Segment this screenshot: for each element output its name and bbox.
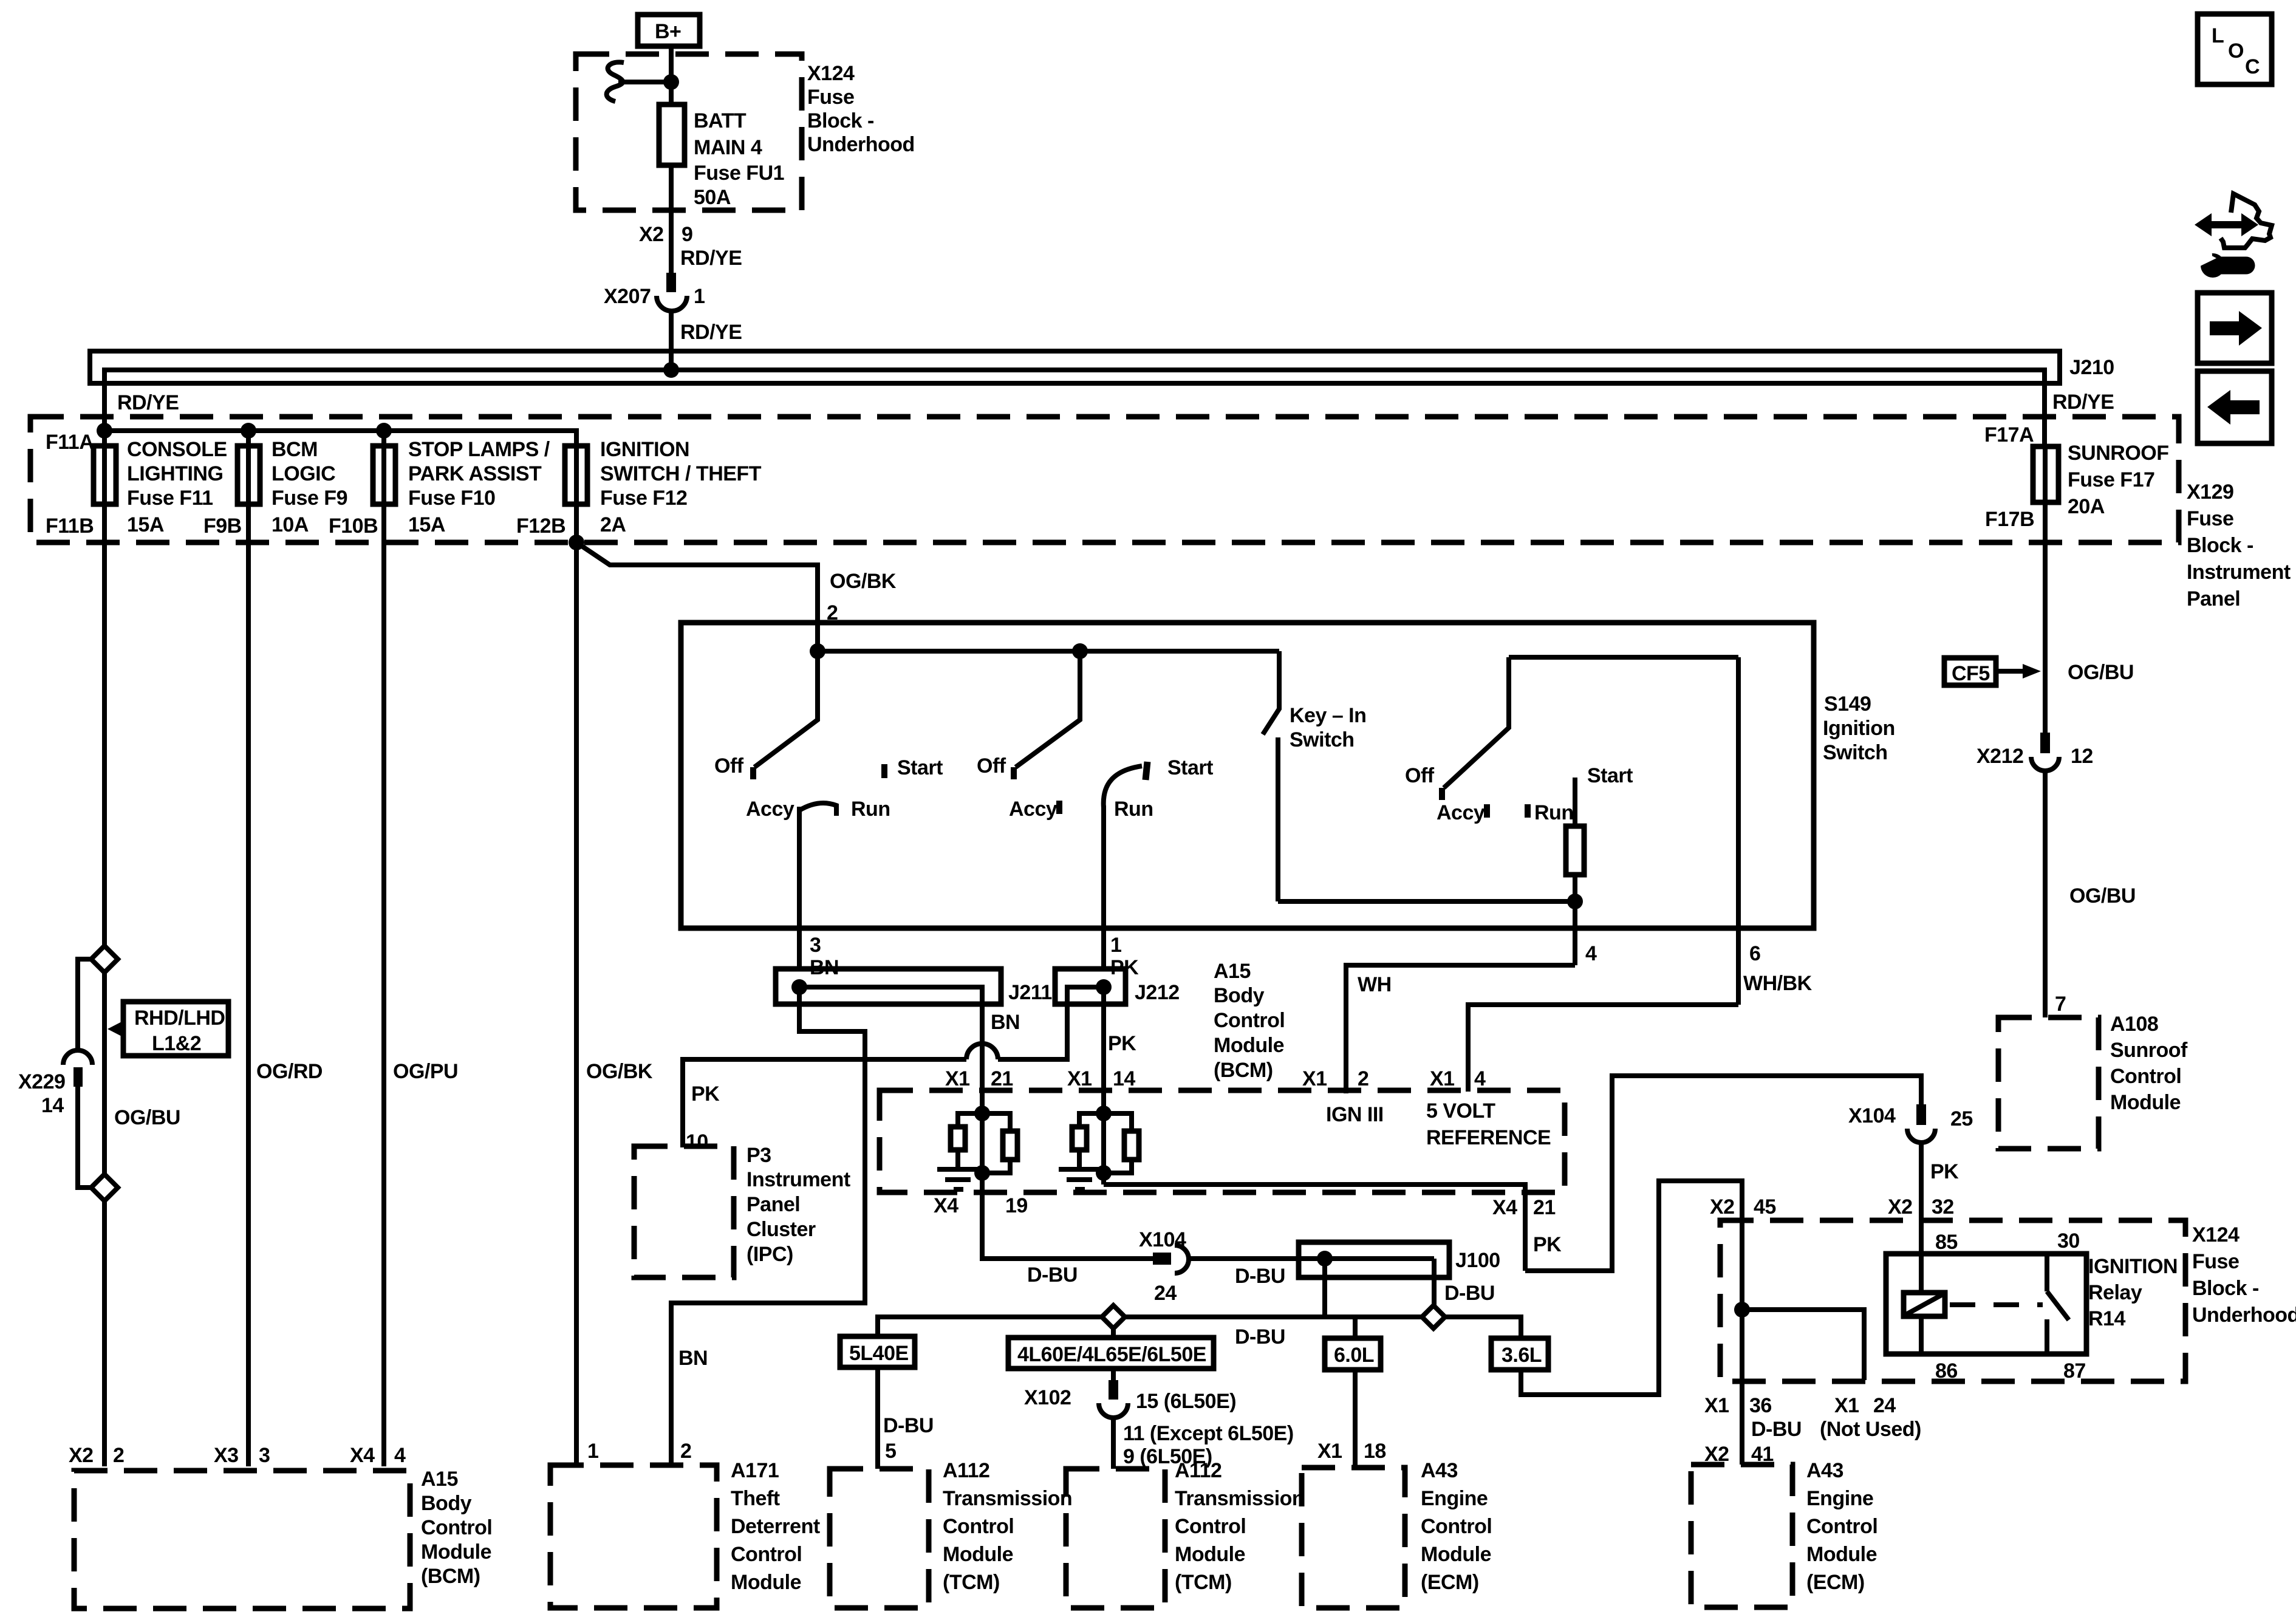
engine control module A43 (ECM 1) dashed box <box>1302 1459 1492 1608</box>
svg-text:X1: X1 <box>1302 1067 1327 1090</box>
fuse block instrument panel X129 dashed box <box>30 417 2291 610</box>
pin labels X1|21 X1|14 X1|2 X1|4 <box>945 1067 1486 1090</box>
svg-text:CONSOLE: CONSOLE <box>127 438 227 461</box>
wire F10B OG/PU down <box>381 504 386 1466</box>
wire X102 to TCM <box>1111 1418 1116 1469</box>
pin labels X2|41 <box>1704 1443 1774 1466</box>
junction dot at X207 feed <box>663 362 679 378</box>
svg-text:WH/BK: WH/BK <box>1743 972 1813 995</box>
wire PK X4|21 to X104 pin 25 <box>1525 1076 1921 1271</box>
svg-text:J210: J210 <box>2069 356 2114 379</box>
svg-text:X104: X104 <box>1139 1228 1186 1251</box>
junction dot J100 <box>1317 1251 1333 1267</box>
switch 1 common and wiper <box>754 651 818 767</box>
resistor R4 stub <box>1104 1113 1132 1131</box>
svg-text:Underhood: Underhood <box>807 133 915 156</box>
svg-text:X1: X1 <box>945 1067 970 1090</box>
wire 5L40E to TCM pin 5 <box>875 1367 880 1469</box>
fuse row feed wire <box>104 431 576 504</box>
svg-text:Deterrent: Deterrent <box>731 1515 820 1538</box>
pin labels X2|32 <box>1888 1195 1954 1219</box>
wire WH pin4 to BCM X1|2 <box>1346 965 1575 1093</box>
svg-text:Off: Off <box>1405 764 1435 787</box>
wire PK to relay <box>1919 1143 1924 1254</box>
svg-text:Module: Module <box>943 1543 1013 1566</box>
svg-text:Control: Control <box>1806 1515 1877 1538</box>
svg-text:F10B: F10B <box>329 514 378 538</box>
svg-text:Module: Module <box>1214 1034 1284 1057</box>
svg-text:Fuse F10: Fuse F10 <box>408 487 495 510</box>
svg-text:A43: A43 <box>1421 1459 1458 1482</box>
svg-text:(Not Used): (Not Used) <box>1820 1418 1921 1441</box>
svg-text:4L60E/4L65E/6L50E: 4L60E/4L65E/6L50E <box>1017 1343 1206 1366</box>
svg-text:X2: X2 <box>1888 1195 1913 1219</box>
svg-text:Instrument: Instrument <box>2187 561 2291 584</box>
battery feed B+ terminal <box>638 15 700 46</box>
wire F17B OG/BU down <box>2043 446 2048 734</box>
junction F11A <box>97 423 112 439</box>
relay contact 30-87 <box>2047 1254 2069 1354</box>
pin label X2 | 9 <box>639 223 692 246</box>
svg-text:OG/BU: OG/BU <box>2069 884 2136 908</box>
svg-text:Fuse: Fuse <box>2192 1250 2239 1273</box>
svg-text:50A: 50A <box>694 186 731 209</box>
wire resistor to junction <box>1573 875 1577 901</box>
wire J212 down to X1|14 <box>1101 987 1106 1092</box>
svg-text:F12B: F12B <box>516 514 565 538</box>
ignition relay R14 box <box>1886 1254 2178 1354</box>
resistor R1 <box>951 1127 965 1150</box>
tag 4L60E/4L65E/6L50E <box>1008 1328 1214 1369</box>
svg-text:Fuse F9: Fuse F9 <box>272 487 347 510</box>
svg-text:RD/YE: RD/YE <box>117 391 179 414</box>
svg-text:4: 4 <box>1474 1067 1486 1090</box>
switch 3 start contact wire <box>1573 778 1577 826</box>
svg-text:Off: Off <box>714 754 744 778</box>
svg-text:X3: X3 <box>214 1444 239 1467</box>
svg-text:5 VOLT: 5 VOLT <box>1426 1099 1495 1123</box>
svg-text:Block -: Block - <box>807 109 874 132</box>
svg-text:1: 1 <box>694 285 705 308</box>
svg-text:F11B: F11B <box>46 514 94 538</box>
svg-text:A171: A171 <box>731 1459 779 1482</box>
svg-text:BN: BN <box>678 1347 708 1370</box>
fuse F9 BCM LOGIC 10A <box>237 431 347 536</box>
junction at fusible link <box>663 74 679 90</box>
svg-text:D-BU: D-BU <box>1444 1282 1495 1305</box>
svg-text:CF5: CF5 <box>1952 662 1990 685</box>
CF5 reference tag <box>1944 658 2041 685</box>
wire F11B OG/BU down <box>102 504 107 1466</box>
svg-text:X102: X102 <box>1024 1386 1071 1409</box>
switch 1 Accy-Run bridge arc <box>799 803 836 816</box>
svg-text:10A: 10A <box>272 513 309 536</box>
svg-text:85: 85 <box>1935 1231 1958 1254</box>
svg-text:24: 24 <box>1154 1282 1177 1305</box>
wire J100 to diamond <box>1432 1259 1437 1305</box>
fuse F11 CONSOLE LIGHTING 15A <box>94 431 227 536</box>
svg-text:OG/BU: OG/BU <box>2068 661 2134 684</box>
PK net internal wire <box>1101 1092 1106 1185</box>
svg-text:Switch: Switch <box>1823 741 1888 764</box>
svg-text:4: 4 <box>394 1444 406 1467</box>
wire fuse to X2 pin 9 <box>669 165 674 273</box>
svg-text:Fuse: Fuse <box>807 86 854 109</box>
switch 2 output wire pin 1 <box>1101 805 1106 970</box>
svg-text:X1: X1 <box>1834 1394 1859 1417</box>
pin labels 11/9 <box>1123 1422 1294 1468</box>
resistor R2 <box>1003 1131 1017 1160</box>
pin labels X1|24 <box>1834 1394 1896 1417</box>
svg-text:BN: BN <box>991 1011 1020 1034</box>
svg-text:Module: Module <box>731 1571 801 1594</box>
svg-text:Fuse F17: Fuse F17 <box>2068 468 2154 491</box>
tag 5L40E <box>840 1336 915 1367</box>
resistor R1 stub <box>958 1113 982 1127</box>
svg-text:OG/BK: OG/BK <box>830 570 897 593</box>
svg-text:Module: Module <box>421 1540 491 1564</box>
svg-text:Module: Module <box>1806 1543 1877 1566</box>
svg-text:Fuse FU1: Fuse FU1 <box>694 162 784 185</box>
svg-text:OG/PU: OG/PU <box>393 1060 458 1083</box>
svg-text:F11A: F11A <box>46 431 94 454</box>
junction F10 <box>376 423 392 439</box>
internal wire PK to X4|21 <box>1104 1185 1525 1271</box>
junction switch 1 <box>810 643 825 659</box>
svg-text:Instrument: Instrument <box>747 1168 850 1191</box>
pin labels X2|2 X3|3 X4|4 <box>69 1444 406 1467</box>
svg-text:10: 10 <box>686 1130 708 1154</box>
svg-text:Sunroof: Sunroof <box>2110 1039 2188 1062</box>
switch 1 Start tick <box>881 764 887 778</box>
svg-text:P3: P3 <box>747 1144 771 1167</box>
svg-text:RD/YE: RD/YE <box>2052 391 2114 414</box>
sunroof control module A108 dashed box <box>1998 1013 2188 1149</box>
svg-text:J211: J211 <box>1008 981 1052 1004</box>
switch 3 common and wiper <box>1444 657 1509 788</box>
relay coil <box>1904 1254 1945 1354</box>
wire X212 to sunroof module <box>2043 771 2048 1017</box>
svg-text:X207: X207 <box>604 285 651 308</box>
LOC legend box <box>2198 14 2272 84</box>
junction dot PK bottom <box>1096 1165 1112 1181</box>
branch wire RHD variant <box>78 959 91 1188</box>
svg-text:87: 87 <box>2063 1359 2086 1383</box>
splice bus J210 outer bar <box>90 351 2060 383</box>
junction dot BN bottom <box>974 1165 990 1181</box>
svg-text:Control: Control <box>421 1516 492 1539</box>
wire R2 to junction <box>982 1160 1010 1173</box>
svg-text:Key – In: Key – In <box>1290 704 1366 727</box>
svg-text:X1: X1 <box>1317 1440 1342 1463</box>
wire R3 to ground <box>1077 1150 1082 1167</box>
connector X207 pin 1 <box>604 273 705 311</box>
resistor R3 <box>1072 1127 1087 1150</box>
svg-text:F17B: F17B <box>1985 508 2034 531</box>
transmission control module A112 (TCM 1) dashed box <box>830 1459 1072 1608</box>
body control module A15 label (center) <box>1214 960 1285 1082</box>
option diamond top <box>91 946 118 973</box>
svg-text:Switch: Switch <box>1290 728 1355 751</box>
connector X102 <box>1024 1380 1236 1418</box>
connector X104 pin 25 <box>1848 1104 1973 1143</box>
relay actuation dashed link <box>1950 1302 2043 1307</box>
svg-text:Accy: Accy <box>1009 798 1057 821</box>
svg-text:L1&2: L1&2 <box>152 1032 201 1055</box>
svg-text:D-BU: D-BU <box>1751 1418 1802 1441</box>
branch wire to ignition switch OG/BK <box>576 542 818 651</box>
svg-text:Control: Control <box>1214 1009 1285 1032</box>
svg-text:STOP LAMPS /: STOP LAMPS / <box>408 438 550 461</box>
wire 3.6L to ECM X2|45 <box>1521 1181 1742 1395</box>
connector X104 pin 24 <box>1139 1228 1189 1305</box>
splice wire J211 to theft module <box>671 987 865 1466</box>
switch 3 feed wire <box>1509 655 1738 660</box>
svg-text:2: 2 <box>113 1444 124 1467</box>
switch 2 Start arm curve with arrow <box>1104 762 1147 808</box>
wire link to main <box>618 80 671 84</box>
svg-text:3: 3 <box>810 934 821 957</box>
svg-text:PARK ASSIST: PARK ASSIST <box>408 462 542 485</box>
bus inner wire RD/YE <box>104 370 2045 446</box>
svg-text:RD/YE: RD/YE <box>680 247 742 270</box>
svg-text:20A: 20A <box>2068 495 2105 518</box>
svg-text:Theft: Theft <box>731 1487 780 1510</box>
svg-text:(TCM): (TCM) <box>1175 1571 1232 1594</box>
svg-text:25: 25 <box>1950 1107 1973 1130</box>
ground G2 <box>1059 1169 1100 1189</box>
junction at F12B branch <box>569 535 584 550</box>
svg-text:D-BU: D-BU <box>1027 1263 1078 1287</box>
junction F9 <box>241 423 256 439</box>
wire R4 to junction <box>1104 1160 1132 1173</box>
svg-text:6: 6 <box>1749 942 1760 965</box>
svg-text:X2: X2 <box>639 223 664 246</box>
svg-text:X124: X124 <box>2192 1223 2240 1246</box>
connector X212 pin 12 <box>1977 733 2093 771</box>
svg-text:18: 18 <box>1364 1440 1386 1463</box>
right arrow navigation box <box>2198 293 2272 363</box>
svg-text:14: 14 <box>41 1094 64 1117</box>
fuse block underhood X124 (top dashed box) <box>576 54 915 210</box>
pin labels X1|36 <box>1704 1394 1772 1417</box>
wrench icon <box>2191 245 2246 278</box>
resistor R4 <box>1124 1131 1139 1160</box>
switch 3 Accy tick <box>1484 804 1490 818</box>
svg-text:Run: Run <box>851 798 890 821</box>
wire 6.0L branch <box>1353 1317 1358 1338</box>
ground G1 <box>937 1169 979 1189</box>
wire B+ to fuse block <box>669 46 674 104</box>
svg-text:SWITCH / THEFT: SWITCH / THEFT <box>600 462 762 485</box>
svg-text:X124: X124 <box>807 62 855 85</box>
transmission select wire <box>878 1317 1521 1338</box>
svg-text:12: 12 <box>2071 745 2093 768</box>
wire J100 branch down <box>1322 1259 1327 1317</box>
svg-text:A112: A112 <box>1175 1459 1221 1482</box>
svg-text:WH: WH <box>1358 973 1392 996</box>
splice J211 box <box>776 969 1001 1004</box>
switch 2 Accy tick <box>1056 801 1062 814</box>
wire X4|19 D-BU down <box>982 1192 1153 1259</box>
wire to X102 <box>1111 1369 1116 1381</box>
svg-text:Accy: Accy <box>1437 801 1485 824</box>
splice J100 box <box>1299 1242 1449 1277</box>
engine control module A43 (ECM 2) dashed box <box>1691 1459 1877 1607</box>
left arrow navigation box <box>2198 371 2272 443</box>
svg-text:IGN III: IGN III <box>1326 1103 1384 1126</box>
svg-text:Engine: Engine <box>1806 1487 1873 1510</box>
svg-text:D-BU: D-BU <box>883 1414 934 1437</box>
svg-text:LOGIC: LOGIC <box>272 462 335 485</box>
svg-text:A43: A43 <box>1806 1459 1843 1482</box>
svg-text:21: 21 <box>991 1067 1013 1090</box>
key-in to start junction wire <box>1278 899 1575 904</box>
svg-text:Transmission: Transmission <box>1175 1487 1304 1510</box>
body control module A15 (BCM) dashed box <box>74 1468 492 1608</box>
svg-text:Fuse: Fuse <box>2187 507 2233 530</box>
switch 1 output wire pin 3 <box>797 807 802 970</box>
svg-text:(TCM): (TCM) <box>943 1571 1000 1594</box>
svg-text:2A: 2A <box>600 513 626 536</box>
svg-text:Accy: Accy <box>746 798 794 821</box>
svg-text:Module: Module <box>1175 1543 1245 1566</box>
RHD/LHD L1&2 option tag box <box>108 1002 228 1056</box>
wire X207 to bus <box>669 312 674 370</box>
svg-text:Start: Start <box>897 756 943 779</box>
switch 3 Run tick <box>1525 804 1531 818</box>
switch 3 Off tick <box>1439 788 1445 800</box>
svg-text:4: 4 <box>1585 942 1597 965</box>
svg-text:1: 1 <box>1110 934 1121 957</box>
svg-text:X2: X2 <box>69 1444 94 1467</box>
svg-text:Ignition: Ignition <box>1823 717 1895 740</box>
svg-text:PK: PK <box>1930 1160 1959 1183</box>
svg-text:PK: PK <box>1108 1032 1136 1055</box>
svg-text:BCM: BCM <box>272 438 318 461</box>
pin labels X2|45 <box>1710 1195 1776 1219</box>
svg-text:OG/BK: OG/BK <box>586 1060 653 1083</box>
svg-text:B+: B+ <box>655 20 681 43</box>
svg-text:RD/YE: RD/YE <box>680 321 742 344</box>
svg-text:Run: Run <box>1114 798 1153 821</box>
svg-text:15A: 15A <box>408 513 445 536</box>
svg-text:X4: X4 <box>1492 1196 1517 1219</box>
option diamond bottom <box>91 1174 118 1201</box>
svg-text:(ECM): (ECM) <box>1806 1571 1865 1594</box>
fuse F17 SUNROOF 20A <box>2033 442 2169 518</box>
svg-text:Transmission: Transmission <box>943 1487 1072 1510</box>
svg-text:C: C <box>2245 55 2260 78</box>
svg-text:Panel: Panel <box>2187 587 2240 610</box>
BCM internal dashed box IGN III / 5 VOLT REFERENCE <box>880 1090 1565 1192</box>
svg-text:(BCM): (BCM) <box>1214 1059 1273 1082</box>
svg-text:A108: A108 <box>2110 1013 2158 1036</box>
svg-text:X2: X2 <box>1710 1195 1735 1219</box>
junction switch 2 <box>1072 643 1088 659</box>
svg-text:Control: Control <box>2110 1065 2181 1088</box>
svg-text:MAIN 4: MAIN 4 <box>694 136 762 159</box>
svg-text:X1: X1 <box>1704 1394 1729 1417</box>
svg-text:Body: Body <box>421 1492 472 1515</box>
svg-text:Control: Control <box>1175 1515 1246 1538</box>
svg-text:Off: Off <box>977 754 1006 778</box>
svg-text:86: 86 <box>1935 1359 1958 1383</box>
wire X104 to J100 <box>1188 1256 1434 1261</box>
wire 6.0L to ECM pin 18 <box>1353 1370 1358 1468</box>
junction start/key-in <box>1567 894 1583 909</box>
svg-text:RHD/LHD: RHD/LHD <box>134 1007 225 1030</box>
splice J212 box <box>1055 969 1126 1004</box>
option diamond transmissions <box>1102 1305 1125 1328</box>
resistor R3 stub <box>1079 1113 1104 1127</box>
svg-text:2: 2 <box>680 1440 691 1463</box>
svg-text:L: L <box>2212 24 2224 47</box>
svg-text:LIGHTING: LIGHTING <box>127 462 223 485</box>
junction dot J212 <box>1096 979 1112 995</box>
svg-text:F9B: F9B <box>203 514 242 538</box>
wire WH/BK pin6 to BCM X1|4 <box>1468 1005 1738 1092</box>
wire F12B down to theft module <box>574 504 579 1466</box>
pin labels A171 <box>587 1440 691 1463</box>
splice wire J211 to X1|21 <box>799 987 982 1092</box>
pin labels X4|19 <box>934 1194 1028 1217</box>
svg-text:A15: A15 <box>421 1468 458 1491</box>
svg-text:Engine: Engine <box>1421 1487 1488 1510</box>
svg-text:X1: X1 <box>1430 1067 1455 1090</box>
svg-text:X4: X4 <box>934 1194 958 1217</box>
svg-text:PK: PK <box>1533 1233 1562 1256</box>
fuse F12 IGNITION SWITCH / THEFT 2A <box>565 438 762 536</box>
svg-text:Module: Module <box>2110 1091 2181 1114</box>
fuse block underhood X124 dashed box (lower) <box>1720 1220 2296 1381</box>
svg-text:D-BU: D-BU <box>1235 1325 1285 1349</box>
splice wire J212 to cluster with hop <box>683 987 1104 1147</box>
svg-text:Block -: Block - <box>2187 534 2253 557</box>
pin 4 output wire <box>1573 901 1577 965</box>
fuse F10 STOP LAMPS / PARK ASSIST 15A <box>373 431 550 536</box>
svg-text:X1: X1 <box>1067 1067 1092 1090</box>
pin labels X4|21 <box>1492 1196 1556 1219</box>
fuse FU1 BATT MAIN 4 50A <box>659 104 784 209</box>
svg-text:21: 21 <box>1533 1196 1556 1219</box>
svg-text:SUNROOF: SUNROOF <box>2068 442 2169 465</box>
svg-text:Fuse F11: Fuse F11 <box>127 487 213 510</box>
svg-text:15 (6L50E): 15 (6L50E) <box>1136 1390 1236 1413</box>
connector X229 pin 14 <box>18 1050 92 1117</box>
svg-text:36: 36 <box>1749 1394 1772 1417</box>
resistor R2 stub <box>982 1113 1010 1131</box>
svg-text:R14: R14 <box>2088 1307 2125 1330</box>
svg-text:2: 2 <box>1358 1067 1368 1090</box>
svg-text:(IPC): (IPC) <box>747 1243 793 1266</box>
svg-text:11 (Except 6L50E): 11 (Except 6L50E) <box>1123 1422 1294 1445</box>
junction dot PK top <box>1096 1106 1112 1121</box>
pin labels X1|18 <box>1317 1440 1386 1463</box>
svg-text:A15: A15 <box>1214 960 1251 983</box>
svg-text:Start: Start <box>1167 756 1213 779</box>
wire R1 to ground <box>955 1150 960 1167</box>
svg-text:3.6L: 3.6L <box>1502 1344 1542 1367</box>
svg-text:32: 32 <box>1932 1195 1954 1219</box>
start bypass resistor <box>1566 826 1584 875</box>
switch feed wire left <box>818 649 1279 654</box>
svg-text:Module: Module <box>1421 1543 1491 1566</box>
theft deterrent control module A171 dashed box <box>550 1459 820 1608</box>
svg-text:Control: Control <box>943 1515 1014 1538</box>
ignition switch S149 box <box>681 623 1895 928</box>
pin 6 feed wire down <box>1736 657 1741 1005</box>
